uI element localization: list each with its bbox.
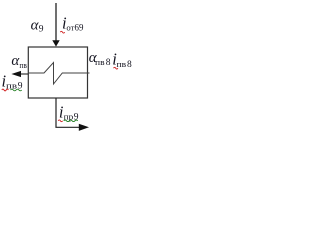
wire: bottom output elbow: [56, 98, 80, 127]
spellcheck squiggle red under i_pr9: [58, 120, 62, 122]
arrowhead: left output: [11, 71, 21, 77]
wire: left output: [21, 73, 29, 75]
svg-text:пв: пв: [19, 61, 27, 70]
grammar squiggle green under pr9: [64, 120, 78, 122]
svg-text:8: 8: [127, 60, 132, 70]
svg-text:пв: пв: [95, 58, 105, 67]
spellcheck squiggle red under i_pv9: [2, 89, 9, 91]
svg-text:9: 9: [39, 24, 44, 34]
spellcheck squiggle red under i_pv8: [114, 67, 118, 69]
spellcheck squiggle red under i_ot69: [60, 31, 64, 33]
svg-text:69: 69: [75, 24, 84, 34]
wire: top input: [55, 3, 57, 41]
arrowhead: top input into box: [52, 40, 59, 46]
grammar squiggle green under pv9: [11, 89, 22, 91]
nonlinear element box U1: [28, 47, 87, 98]
svg-text:пв: пв: [117, 60, 127, 69]
hysteresis characteristic symbol: [28, 63, 89, 85]
arrowhead: bottom output right: [79, 124, 89, 131]
svg-text:8: 8: [106, 58, 111, 68]
